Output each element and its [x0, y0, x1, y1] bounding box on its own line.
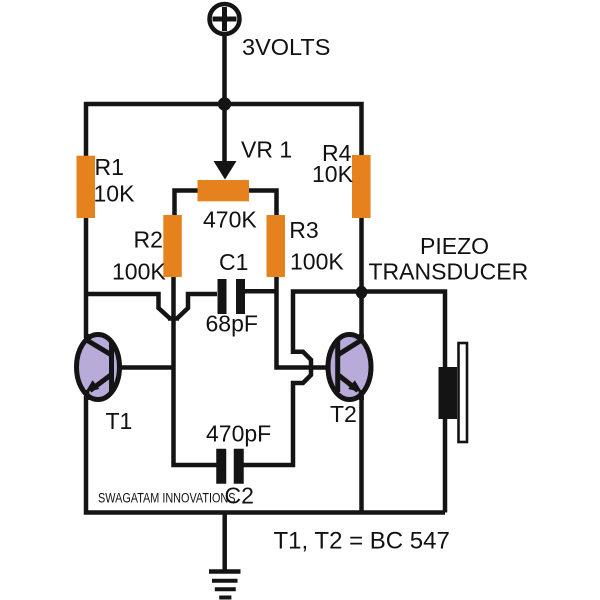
svg-text:T2: T2	[330, 401, 357, 427]
transistor T2 body	[328, 335, 371, 400]
potentiometer VR1 arrow	[214, 161, 237, 180]
resistor R2	[163, 215, 182, 277]
wire hop right half to C1	[177, 294, 217, 319]
wire base rail left with hop	[86, 294, 170, 319]
svg-text:10K: 10K	[312, 161, 354, 187]
capacitor C1 plates	[218, 279, 227, 314]
svg-text:PIEZO: PIEZO	[420, 233, 489, 259]
svg-text:10K: 10K	[94, 181, 136, 207]
svg-text:VR 1: VR 1	[241, 137, 292, 163]
resistor R1	[77, 156, 96, 218]
wire node to T2 collector crossover upper	[293, 292, 362, 369]
node A supply junction dot	[218, 97, 231, 110]
wire VR1 left pin to R2	[175, 191, 198, 218]
svg-text:SWAGATAM INNOVATIONS: SWAGATAM INNOVATIONS	[98, 491, 236, 506]
wire bottom rail	[86, 396, 445, 513]
wire crossover lower to C2 right	[244, 367, 312, 465]
battery B1 (+3V supply symbol)	[210, 4, 240, 34]
node B T2 collector junction dot	[356, 286, 368, 299]
svg-text:R1: R1	[95, 154, 124, 180]
transistor T1 internals	[86, 334, 112, 400]
svg-text:R3: R3	[289, 217, 318, 243]
capacitor C2 plates	[216, 449, 226, 484]
transistor T1 emitter arrow	[85, 380, 99, 392]
wire top rail	[86, 104, 362, 158]
battery plus sign	[213, 17, 237, 22]
wire VR1 stem	[222, 104, 227, 163]
wire supply stub	[222, 34, 227, 104]
wire piezo bottom	[443, 418, 448, 513]
wire right rail R4 to node	[359, 218, 364, 292]
svg-text:T1, T2 = BC 547: T1, T2 = BC 547	[274, 528, 450, 555]
wire T1 base	[110, 365, 175, 370]
svg-text:TRANSDUCER: TRANSDUCER	[369, 259, 529, 285]
wire ground stub	[222, 513, 227, 571]
wire T2 collector	[359, 292, 364, 339]
svg-text:R2: R2	[134, 227, 163, 253]
ground symbol	[209, 572, 241, 598]
svg-text:T1: T1	[106, 408, 133, 434]
wire hop cap	[168, 316, 179, 321]
resistor R4	[352, 155, 371, 218]
svg-text:100K: 100K	[112, 259, 166, 285]
wire C1 right to R3 vertical	[245, 289, 279, 294]
svg-text:470pF: 470pF	[206, 421, 271, 447]
svg-text:C1: C1	[219, 249, 248, 275]
transistor T2 internals	[338, 334, 363, 400]
svg-text:68pF: 68pF	[206, 311, 258, 337]
wire R2 bottom vertical to C2	[174, 277, 218, 465]
wire node to piezo	[362, 292, 446, 369]
potentiometer VR1 body	[198, 180, 250, 201]
wire left rail upper	[84, 216, 89, 338]
piezo disc outline	[459, 343, 468, 442]
svg-text:470K: 470K	[203, 207, 257, 233]
transistor T2 emitter arrow	[348, 380, 362, 392]
svg-text:100K: 100K	[290, 248, 344, 274]
svg-text:3VOLTS: 3VOLTS	[242, 34, 330, 60]
transistor T1 body	[77, 335, 120, 400]
wire R3 bottom to T2 base	[277, 276, 340, 368]
wire VR1 right pin to R3	[249, 191, 277, 217]
resistor R3	[267, 215, 286, 277]
wire T2 emitter to bottom rail	[359, 396, 364, 513]
piezo element plate	[439, 367, 458, 419]
